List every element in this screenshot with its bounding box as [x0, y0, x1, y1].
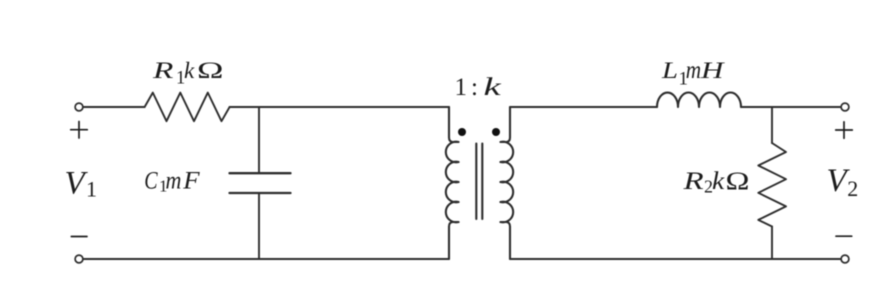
label turns ratio 1 : k [455, 74, 502, 102]
svg-text:Ω: Ω [197, 58, 223, 83]
svg-text:F: F [182, 166, 201, 194]
wire R1 to transformer primary, through node at capacitor tap [230, 106, 449, 108]
svg-text:1: 1 [455, 74, 468, 101]
terminal bottom-left (open circle) [75, 255, 83, 263]
wire bottom-right rail [510, 258, 841, 260]
wire bottom-left rail [83, 258, 449, 260]
transformer T1 polarity dot primary [458, 128, 466, 136]
wire R2 bottom lead [771, 227, 773, 260]
label R2 kOhm [682, 167, 749, 196]
svg-text:m: m [166, 167, 182, 195]
svg-text:V: V [65, 166, 89, 202]
wire R2 top lead [771, 107, 773, 143]
resistor R2 (vertical zigzag) [758, 143, 786, 227]
minus sign at V2 [836, 235, 852, 237]
wire capacitor C1 top lead [258, 107, 260, 172]
svg-text::: : [471, 74, 478, 101]
minus sign at V1 [71, 236, 87, 238]
svg-text:R: R [152, 58, 174, 84]
terminal top-right (open circle) [841, 103, 849, 111]
wire transformer secondary to L1 [510, 106, 657, 108]
svg-text:m: m [686, 56, 701, 84]
resistor R1 (zigzag) [145, 93, 230, 122]
wire top-left terminal to R1 [83, 106, 144, 108]
label V2 [827, 163, 859, 201]
transformer T1 polarity dot secondary [492, 128, 500, 136]
svg-text:L: L [661, 58, 678, 84]
svg-text:2: 2 [847, 176, 858, 201]
svg-text:k: k [184, 58, 195, 83]
svg-text:R: R [682, 168, 703, 195]
wire capacitor C1 bottom lead [258, 194, 260, 259]
label C1 mF [144, 166, 200, 195]
wire L1 to top-right terminal, through node at R2 tap [741, 106, 841, 108]
plus sign at V1 [71, 122, 88, 139]
plus sign at V2 [836, 122, 853, 139]
svg-text:k: k [712, 167, 726, 195]
terminal top-left (open circle) [75, 103, 83, 111]
svg-text:k: k [484, 74, 502, 102]
svg-text:1: 1 [86, 177, 97, 202]
svg-text:Ω: Ω [726, 167, 750, 195]
transformer T1 core (two bars) [476, 144, 482, 220]
svg-text:H: H [700, 58, 725, 83]
label V1 [65, 166, 98, 202]
label R1 kOhm [152, 58, 224, 89]
transformer T1 primary winding (left coil) [446, 107, 459, 259]
label L1 mH [661, 56, 725, 89]
inductor L1 (four humps) [657, 93, 741, 108]
terminal bottom-right (open circle) [841, 255, 849, 263]
capacitor C1 plates [230, 173, 291, 193]
svg-text:C: C [144, 166, 158, 194]
transformer T1 secondary winding (right coil) [500, 107, 513, 259]
